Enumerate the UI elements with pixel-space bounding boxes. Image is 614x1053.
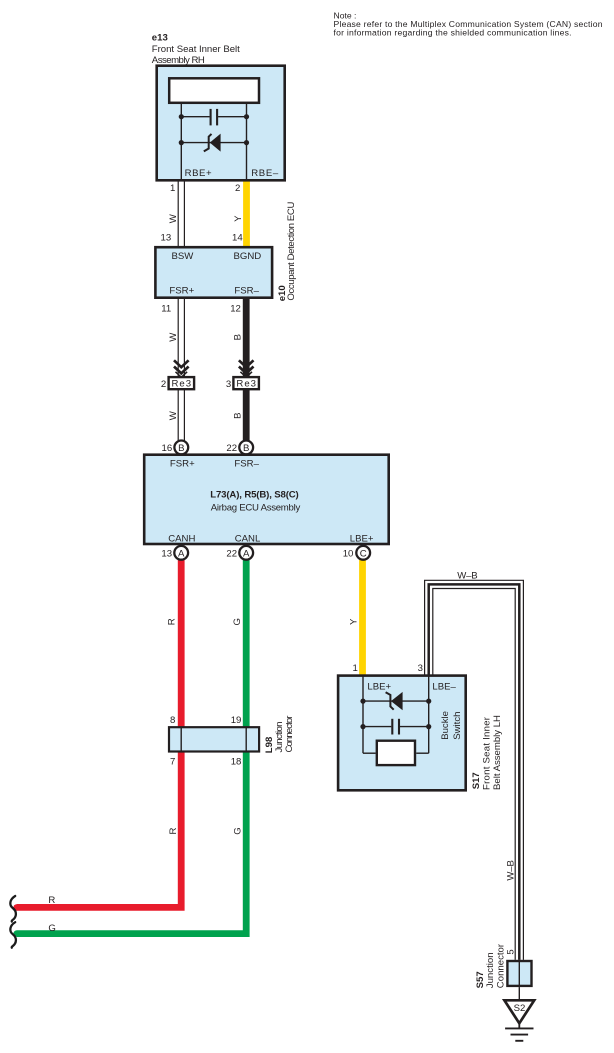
svg-text:R: R (48, 895, 55, 906)
pin 22 circle B (239, 441, 253, 455)
wire pass-through left (180, 727, 182, 751)
svg-text:LBE–: LBE– (432, 681, 456, 692)
svg-text:16: 16 (162, 443, 173, 454)
svg-text:Occupant Detection ECU: Occupant Detection ECU (286, 202, 297, 301)
pin 16 circle B (174, 441, 188, 455)
svg-text:Re3: Re3 (236, 379, 256, 390)
internal rail left (362, 676, 364, 754)
zener diode in S17 (363, 692, 429, 710)
wire W-B from S17 pin3 to S57 (425, 580, 524, 960)
svg-text:2: 2 (235, 183, 240, 194)
svg-text:Front Seat Inner Belt: Front Seat Inner Belt (152, 44, 240, 55)
svg-text:W: W (168, 332, 179, 342)
shield arrow at x=246.2 (239, 360, 254, 377)
wire Y LBE+ (359, 553, 366, 676)
connector box e13 (157, 66, 285, 181)
wire Y from e13 pin2 to e10 pin14 (243, 180, 250, 247)
svg-text:W: W (168, 410, 179, 420)
svg-text:22: 22 (226, 549, 237, 560)
svg-text:CANL: CANL (235, 534, 261, 545)
svg-text:19: 19 (231, 715, 242, 726)
svg-text:14: 14 (232, 232, 243, 243)
wire pass-through (518, 961, 520, 986)
svg-text:G: G (232, 618, 243, 625)
junction dots diode row (179, 140, 184, 145)
wire pass-through right (245, 727, 247, 751)
junction dots capacitor row (179, 114, 184, 119)
svg-text:e13: e13 (152, 33, 168, 44)
wire B from Re3 to airbag ECU pin22 (243, 389, 250, 441)
stub right (416, 752, 429, 754)
svg-text:5: 5 (506, 949, 517, 954)
svg-text:Y: Y (233, 215, 244, 222)
svg-text:FSR+: FSR+ (170, 459, 195, 470)
squiggle end of R wire (10, 896, 16, 922)
wire B from e10 pin12 to shield arrow (243, 298, 250, 377)
svg-text:LBE+: LBE+ (350, 534, 374, 545)
svg-text:1: 1 (352, 663, 357, 674)
svg-text:Assembly RH: Assembly RH (152, 55, 205, 66)
svg-text:Junction: Junction (485, 952, 496, 988)
internal rail right (428, 676, 430, 754)
wire G CANL (17, 553, 247, 934)
svg-text:BGND: BGND (234, 251, 262, 262)
svg-text:G: G (233, 827, 244, 834)
svg-text:FSR–: FSR– (234, 285, 259, 296)
svg-text:G: G (48, 923, 55, 934)
ECU box e10 (155, 247, 272, 298)
svg-text:CANH: CANH (168, 534, 195, 545)
zener diode in e13 (181, 134, 246, 152)
svg-text:S2: S2 (514, 1003, 526, 1014)
ground triangle S2 (504, 1000, 534, 1023)
ground symbol (505, 1028, 533, 1040)
svg-text:B: B (232, 334, 243, 340)
pin 13 circle A (174, 546, 188, 560)
svg-text:3: 3 (418, 663, 423, 674)
switch element rect (377, 741, 415, 765)
svg-text:Y: Y (348, 618, 359, 625)
junction connector S57 (507, 961, 531, 986)
squiggle end of G wire (10, 922, 16, 948)
capacitor in S17 (363, 719, 429, 735)
svg-text:10: 10 (343, 549, 354, 560)
svg-text:2: 2 (161, 379, 166, 390)
shield arrow at x=181.3 (174, 360, 189, 377)
svg-text:RBE+: RBE+ (185, 168, 212, 179)
svg-text:Switch: Switch (452, 712, 463, 740)
wire W from e10 pin11 to shield arrow (178, 298, 184, 377)
svg-text:Belt Assembly LH: Belt Assembly LH (492, 715, 503, 790)
svg-text:13: 13 (161, 549, 172, 560)
svg-text:Connector: Connector (284, 715, 295, 753)
svg-text:LBE+: LBE+ (367, 681, 391, 692)
svg-text:W–B: W–B (457, 570, 478, 581)
svg-text:RBE–: RBE– (251, 168, 279, 179)
svg-text:Buckle: Buckle (440, 711, 451, 740)
svg-text:for information regarding the: for information regarding the shielded c… (334, 27, 572, 37)
switch box S17 (338, 676, 466, 791)
junction dots diode row (360, 699, 365, 704)
junction connector L98 (169, 727, 259, 751)
svg-text:B: B (232, 412, 243, 418)
internal rail left (180, 104, 182, 180)
svg-text:8: 8 (170, 715, 175, 726)
svg-text:3: 3 (226, 379, 231, 390)
capacitor in e13 (181, 109, 246, 126)
stub apex to ground bar (518, 1023, 520, 1029)
wire W from Re3 to airbag ECU pin16 (178, 389, 184, 441)
svg-text:A: A (178, 548, 185, 559)
wire to ground (518, 987, 520, 999)
connector Re3 (233, 377, 259, 389)
svg-text:Airbag ECU Assembly: Airbag ECU Assembly (211, 503, 301, 514)
svg-text:22: 22 (226, 443, 237, 454)
svg-text:BSW: BSW (172, 251, 195, 262)
svg-text:1: 1 (170, 183, 175, 194)
wire R CANH (17, 553, 182, 907)
svg-text:Re3: Re3 (172, 379, 192, 390)
svg-text:18: 18 (231, 756, 242, 767)
svg-text:11: 11 (161, 304, 171, 315)
pin 22 circle A (239, 546, 253, 560)
svg-text:12: 12 (230, 304, 241, 315)
svg-text:R: R (168, 827, 179, 834)
internal rail right (246, 104, 248, 180)
svg-text:L73(A), R5(B), S8(C): L73(A), R5(B), S8(C) (210, 490, 299, 501)
pin 10 circle C (356, 546, 370, 560)
svg-text:B: B (178, 443, 184, 454)
svg-text:7: 7 (170, 756, 175, 767)
svg-text:C: C (360, 548, 367, 559)
svg-text:Connector: Connector (495, 943, 506, 988)
svg-text:FSR–: FSR– (234, 459, 259, 470)
connector Re3 (169, 377, 195, 389)
svg-text:S17: S17 (471, 772, 482, 789)
stub left (363, 752, 376, 754)
junction dots capacitor row (360, 724, 365, 729)
svg-text:R: R (167, 618, 178, 625)
ECU box L73/R5/S8 Airbag ECU Assembly (144, 455, 389, 544)
svg-text:13: 13 (161, 232, 172, 243)
svg-text:FSR+: FSR+ (169, 285, 194, 296)
svg-text:A: A (243, 548, 250, 559)
svg-text:W: W (168, 213, 179, 223)
svg-text:W–B: W–B (506, 860, 517, 881)
svg-text:B: B (243, 443, 249, 454)
wire W from e13 pin1 to e10 pin13 (178, 180, 184, 247)
belt plate (169, 78, 259, 103)
svg-text:Front Seat Inner: Front Seat Inner (481, 716, 492, 790)
